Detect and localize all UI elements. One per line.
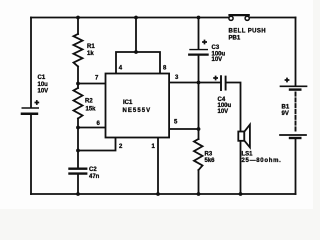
svg-text:PB1: PB1 — [229, 35, 241, 41]
svg-text:25—80ohm.: 25—80ohm. — [242, 158, 282, 164]
capacitor C2 — [70, 169, 87, 174]
svg-text:C3: C3 — [212, 45, 220, 51]
capacitor C3 — [189, 50, 207, 55]
svg-text:BELL PUSH: BELL PUSH — [229, 28, 267, 34]
polarity plus C3 — [202, 40, 207, 45]
svg-text:R2: R2 — [85, 98, 93, 104]
svg-text:R3: R3 — [205, 151, 213, 157]
switch PB1 bell push — [228, 15, 249, 20]
svg-text:10u: 10u — [38, 82, 49, 88]
svg-text:9V: 9V — [282, 111, 289, 117]
resistor R2 — [74, 88, 83, 119]
wire C3 branch upper — [198, 18, 200, 49]
wire right rail upper — [295, 18, 297, 86]
speaker LS1 symbol — [238, 125, 250, 148]
svg-text:B1: B1 — [282, 105, 290, 111]
battery B1 top cell — [281, 86, 307, 89]
svg-text:R1: R1 — [87, 44, 95, 50]
svg-text:47n: 47n — [89, 174, 100, 180]
capacitor C1 — [21, 108, 39, 114]
svg-text:5k6: 5k6 — [205, 158, 216, 164]
svg-text:1k: 1k — [87, 51, 94, 57]
wire C2 to bottom rail — [77, 175, 79, 194]
wire R1 to node 7 — [77, 67, 79, 89]
wire pins 4+8 stem — [135, 18, 137, 53]
wire speaker to bottom rail — [240, 141, 242, 194]
wire top rail right segment — [249, 17, 295, 19]
svg-text:15k: 15k — [86, 106, 97, 112]
svg-text:LS1: LS1 — [242, 151, 254, 157]
wire top rail left segment — [31, 17, 229, 19]
capacitor C4 — [221, 76, 226, 90]
svg-text:C4: C4 — [218, 97, 226, 103]
svg-text:C1: C1 — [38, 75, 46, 81]
wire C4 to speaker — [227, 83, 241, 132]
battery B1 dashed body — [295, 93, 297, 133]
svg-text:10V: 10V — [38, 89, 49, 95]
polarity plus C4 — [213, 76, 218, 81]
wire bottom rail — [31, 193, 296, 195]
wire pin 1 — [157, 138, 159, 195]
wire left rail upper — [30, 18, 32, 108]
wire pin 6 — [78, 127, 106, 129]
svg-text:10V: 10V — [218, 109, 229, 115]
svg-text:NE555V: NE555V — [123, 108, 152, 114]
svg-text:IC1: IC1 — [123, 100, 133, 106]
wire R2 to C2 — [77, 119, 79, 169]
battery B1 bottom cell — [280, 135, 306, 138]
wire right rail lower — [295, 139, 297, 195]
wire pin 3 — [169, 82, 220, 84]
polarity plus B1 — [285, 78, 290, 83]
resistor R3 — [194, 139, 203, 170]
op-amp/timer IC1 box — [106, 74, 170, 138]
wire pins 4+8 bracket — [116, 52, 160, 74]
resistor R1 — [74, 34, 83, 67]
wire C3 to node 3 — [198, 56, 200, 83]
wire center column above R1 — [77, 18, 79, 35]
svg-text:100u: 100u — [218, 103, 232, 109]
polarity plus C1 — [35, 100, 40, 105]
svg-text:10V: 10V — [212, 57, 223, 63]
wire R3 to bottom rail — [198, 170, 200, 194]
wire pin 7 — [78, 83, 106, 85]
wire node5 to R3 — [198, 129, 200, 139]
wire pin 5 — [169, 128, 199, 130]
svg-text:C2: C2 — [89, 167, 97, 173]
wire pin 2 — [78, 138, 116, 151]
wire node3 to node5 — [198, 83, 200, 130]
wire left rail lower — [30, 115, 32, 194]
